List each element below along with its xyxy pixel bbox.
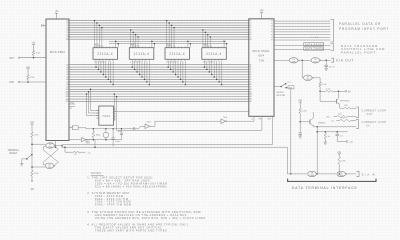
capacitor series to inverter (134, 126, 146, 130)
power +5v Q2 (298, 100, 303, 105)
wire data taps with junction dots to RAM I/O pins (94, 20, 211, 48)
label notes block (87, 172, 205, 232)
svg-text:P2: P2 (271, 26, 273, 28)
resistor 3.3k NMI pullup (27, 71, 36, 82)
wire oscillator node (91, 128, 134, 130)
pin stubs 6502 sync (69, 102, 75, 110)
inverter U4 7404 clock (145, 122, 152, 129)
node EIA select box (288, 86, 294, 90)
memory chip C1 2111A-4 RAM (93, 43, 118, 63)
wire address bus A0-A15 from 6502 to 6530 (69, 65, 249, 102)
svg-text:RES: RES (268, 118, 271, 120)
svg-text:D4: D4 (250, 30, 252, 32)
wire tap to decoder rail A (114, 93, 116, 121)
svg-text:1uf: 1uf (340, 136, 343, 138)
svg-text:D6: D6 (66, 34, 68, 36)
memory chip C3 2111A-4 RAM (165, 43, 190, 63)
svg-text:D7: D7 (66, 37, 68, 39)
wire EIA out to gate C (301, 60, 304, 78)
IC U2 MCS 6530-004 TIM box (249, 19, 274, 117)
resistor 1k to +5v (62, 146, 92, 156)
label EIA OUT (336, 58, 354, 62)
node NMI input (10, 81, 47, 84)
label parallel data or program input port (339, 22, 389, 31)
svg-text:P5: P5 (271, 34, 273, 36)
resistor 5.6k EIA in (338, 157, 347, 175)
svg-text:PROGRAM INPUT PORT: PROGRAM INPUT PORT (339, 27, 389, 31)
wire 7442 left inputs from address bus (86, 89, 99, 116)
power +5v NMI pullup (26, 67, 31, 72)
power +5v for 6502 (55, 11, 60, 19)
svg-text:7400: 7400 (48, 167, 52, 169)
svg-text:A007: A007 (203, 43, 207, 46)
pin labels data bus at 6502 and 6530 (66, 19, 248, 41)
svg-text:RESET: RESET (10, 153, 18, 155)
component phase cap box (69, 126, 91, 130)
inverter U4 7404 on phase rail (221, 117, 254, 124)
ground 1k (324, 141, 327, 145)
power +5v RDY pullup (32, 43, 37, 48)
svg-text:D1: D1 (250, 23, 252, 25)
svg-text:K10 = BA (RAM) = 400 AVAILABLE: K10 = BA (RAM) = 400 AVAILABLE+EXPAND (95, 184, 167, 188)
svg-text:P7: P7 (271, 40, 273, 42)
wire selector down to EIA IN gates (290, 89, 292, 175)
svg-text:MCS 6502: MCS 6502 (50, 50, 65, 54)
node B+ terminal (339, 90, 352, 93)
pin labels 6530 left edge (250, 20, 253, 103)
svg-text:P0: P0 (271, 21, 273, 23)
gate C 7437 (304, 75, 314, 81)
resistor 180 ohm emitter (340, 105, 357, 110)
svg-text:7442: 7442 (102, 114, 110, 118)
svg-text:D3: D3 (66, 27, 68, 29)
wire 7442 chip select output (114, 111, 249, 113)
svg-text:D2: D2 (66, 25, 68, 27)
label current loop in (362, 121, 387, 128)
svg-text:IN: IN (367, 124, 370, 127)
svg-text:004: 004 (258, 54, 264, 58)
svg-text:A006: A006 (167, 43, 171, 46)
wire latch inputs (31, 143, 45, 167)
wire rail RW (117, 129, 262, 131)
gate B 7400 (311, 58, 321, 64)
svg-text:D5: D5 (250, 32, 252, 34)
svg-text:P6: P6 (271, 37, 273, 39)
svg-text:RETURN: RETURN (277, 95, 286, 97)
transistor Q1 MPS6534 (337, 91, 351, 104)
wire latch cross coupling (43, 147, 58, 165)
wire 6530 keyboard pin (274, 86, 282, 88)
svg-text:THESE MAY VARY WITH PARTS AND: THESE MAY VARY WITH PARTS AND TYPES (95, 229, 167, 233)
svg-text:P4: P4 (271, 32, 273, 34)
wire gate E to bracket (346, 173, 356, 175)
svg-text:D6: D6 (250, 34, 252, 36)
svg-text:100pf: 100pf (115, 141, 120, 143)
wire Q2 output down to gate D (316, 131, 318, 175)
svg-text:7400: 7400 (310, 175, 314, 177)
svg-text:DATA TERMINAL INTERFACE: DATA TERMINAL INTERFACE (292, 186, 358, 190)
resistor 4.7k reset (31, 127, 40, 171)
svg-text:D4: D4 (66, 30, 68, 32)
node -10v reset bottom (30, 180, 35, 190)
label DATA TERMINAL INTERFACE (292, 186, 358, 190)
svg-text:D0: D0 (250, 20, 252, 22)
svg-text:7400: 7400 (48, 147, 52, 149)
svg-text:1k: 1k (74, 154, 76, 156)
border title bracket (288, 179, 376, 182)
wire gate D to gate E (317, 173, 336, 175)
wire select/power rails above RAM row (109, 41, 227, 48)
svg-text:A005: A005 (131, 43, 135, 46)
wire gate C to resistor (313, 78, 320, 82)
svg-text:7400: 7400 (339, 175, 343, 177)
inverter buffer 7404 phase out (69, 138, 96, 148)
transistor Q2 2N3644 (300, 112, 326, 127)
svg-text:02: 02 (251, 118, 253, 120)
bracket current loop out (356, 107, 358, 118)
svg-text:P1: P1 (271, 23, 273, 25)
capacitor 1uf (336, 132, 344, 142)
svg-text:D7: D7 (250, 37, 252, 39)
label EIA IN (362, 173, 375, 176)
svg-text:DATA READY: DATA READY (305, 43, 324, 46)
pin labels address bus at 6502 (66, 63, 69, 103)
svg-text:D5: D5 (66, 32, 68, 34)
node -10v terminal (337, 141, 354, 144)
bracket EIA IN (356, 171, 359, 176)
resistor 5.6k Q2 base (299, 105, 308, 123)
svg-text:RDY: RDY (10, 57, 15, 60)
gate G 7400 latch lower (45, 163, 55, 169)
wire clock to rail (151, 121, 221, 126)
gate F 7400 latch upper (46, 143, 56, 149)
label keybd return (277, 92, 286, 97)
resistor 1k to ground (324, 132, 331, 141)
capacitor 470uf (324, 60, 335, 68)
svg-text:A004: A004 (95, 43, 99, 46)
label terminal reset (8, 149, 20, 155)
wire rail RES long (62, 144, 273, 146)
memory chip C2 2111A-4 RAM (129, 43, 154, 63)
capacitor .001 (118, 129, 124, 140)
resistor 5.6k upper (319, 82, 328, 87)
svg-text:NOTES: NOTES (91, 172, 102, 175)
svg-text:TIM: TIM (259, 59, 265, 63)
crystal Y1 (103, 129, 108, 140)
svg-text:MPS6534: MPS6534 (340, 101, 350, 103)
svg-text:PARALLEL PORT: PARALLEL PORT (341, 50, 376, 54)
power +5v reset rail (30, 122, 35, 127)
wire gate B to EIA OUT (320, 60, 330, 62)
svg-text:2111A-4: 2111A-4 (97, 52, 113, 56)
wire data ready line (274, 43, 331, 47)
node RDY input (10, 57, 47, 60)
svg-text:OUT: OUT (367, 113, 374, 116)
resistor 2.2k (320, 88, 339, 92)
svg-text:470 uf: 470 uf (329, 66, 335, 68)
svg-text:P3: P3 (271, 29, 273, 31)
bracket parallel port (330, 20, 333, 43)
svg-text:CURRENT LOOP: CURRENT LOOP (362, 109, 387, 112)
wire tap to decoder rail B (116, 96, 118, 131)
svg-text:7437: 7437 (306, 79, 310, 81)
power +5v for 6530 (260, 10, 265, 19)
svg-text:D1: D1 (66, 23, 68, 25)
ground below 470uf (325, 67, 328, 71)
capacitor Q2 base filter (298, 122, 302, 135)
svg-text:SYNC: SYNC (70, 102, 74, 104)
svg-text:2N3644: 2N3644 (318, 122, 326, 124)
svg-text:E.I.A. IN: E.I.A. IN (362, 173, 375, 176)
svg-text:NMI: NMI (10, 81, 15, 84)
switch reset momentary (22, 154, 33, 162)
wire 6530 to gate A (274, 59, 289, 61)
memory chip C4 2111A-4 RAM (202, 43, 227, 63)
svg-text:KEYBD: KEYBD (277, 92, 285, 94)
capacitor 100pf (112, 129, 121, 147)
decoder U3 7442 (96, 106, 116, 125)
bracket current loop in (356, 119, 358, 128)
svg-text:D0: D0 (66, 20, 68, 22)
wire data taken line (274, 47, 331, 51)
svg-text:CURRENT LOOP: CURRENT LOOP (362, 121, 387, 124)
label current loop out (362, 109, 387, 116)
wire +5v current loop in (331, 118, 357, 123)
svg-text:7404: 7404 (86, 142, 90, 144)
switch TTY-EIA selector (281, 82, 291, 89)
bracket EIA OUT (331, 58, 333, 62)
svg-text:D3: D3 (250, 27, 252, 29)
gate A 7400 (289, 58, 299, 64)
svg-text:DATA TAKEN: DATA TAKEN (305, 48, 324, 51)
svg-text:MCS 6530-: MCS 6530- (252, 49, 270, 53)
resistor 3.3k RDY pullup (32, 47, 41, 58)
bracket data transfer lines (331, 44, 334, 51)
resistor 100k oscillator (92, 129, 101, 140)
gate D 7400 EIA in (308, 171, 318, 177)
resistor 3.3k reset lower (31, 171, 40, 183)
svg-text:2111A-4: 2111A-4 (206, 52, 222, 56)
pin labels 6502 bottom (49, 141, 57, 148)
wire oscillator bottom rail (85, 139, 122, 143)
svg-text:F000 - FFFF TIM ROM: F000 - FFFF TIM ROM (95, 202, 131, 206)
svg-text:USING THE ADDRESS BUS, DATA BU: USING THE ADDRESS BUS, DATA BUS, R/W + I… (95, 216, 206, 220)
svg-text:7400: 7400 (292, 61, 296, 63)
wire emitter network (317, 127, 347, 133)
gate E 7400 EIA in (337, 171, 347, 177)
wire node to base (319, 87, 336, 102)
wire rail reset out long (62, 146, 287, 148)
svg-text:PARALLEL DATA OR: PARALLEL DATA OR (339, 22, 381, 26)
pin labels 6530 right edge (271, 21, 273, 42)
pin numbers on parallel lines (311, 37, 319, 39)
wire current loop in lower (314, 126, 356, 128)
power +5v EIA in pullup (337, 152, 342, 157)
svg-text:EIA OUT: EIA OUT (336, 58, 354, 62)
svg-text:TTY: TTY (287, 82, 291, 84)
wire address taps with junction dots from RAM pins to bus (95, 61, 222, 85)
wire gate A to gate B (299, 60, 311, 62)
label data transfer control line (341, 44, 385, 54)
clock input stub on 6502 left edge (42, 24, 47, 26)
wire latch output to rails (55, 145, 62, 148)
pin stubs 6530 bottom (251, 116, 273, 144)
wire PA0-PA7 parallel port lines (274, 20, 330, 41)
ground reset switch (20, 162, 23, 166)
svg-text:TERMINAL: TERMINAL (8, 149, 20, 152)
ground Q2 base filter (299, 134, 302, 138)
wire data bus D0-D7 + R/W from 6502 to 6530 (69, 21, 249, 40)
wire -10v return current loop out (326, 114, 356, 119)
svg-text:7400: 7400 (313, 61, 317, 63)
svg-text:2111A-4: 2111A-4 (134, 52, 150, 56)
svg-text:D2: D2 (250, 25, 252, 27)
IC U1 MCS 6502 CPU box (46, 19, 69, 141)
wire reset rail corner down (287, 147, 307, 174)
svg-text:2111A-4: 2111A-4 (169, 52, 185, 56)
